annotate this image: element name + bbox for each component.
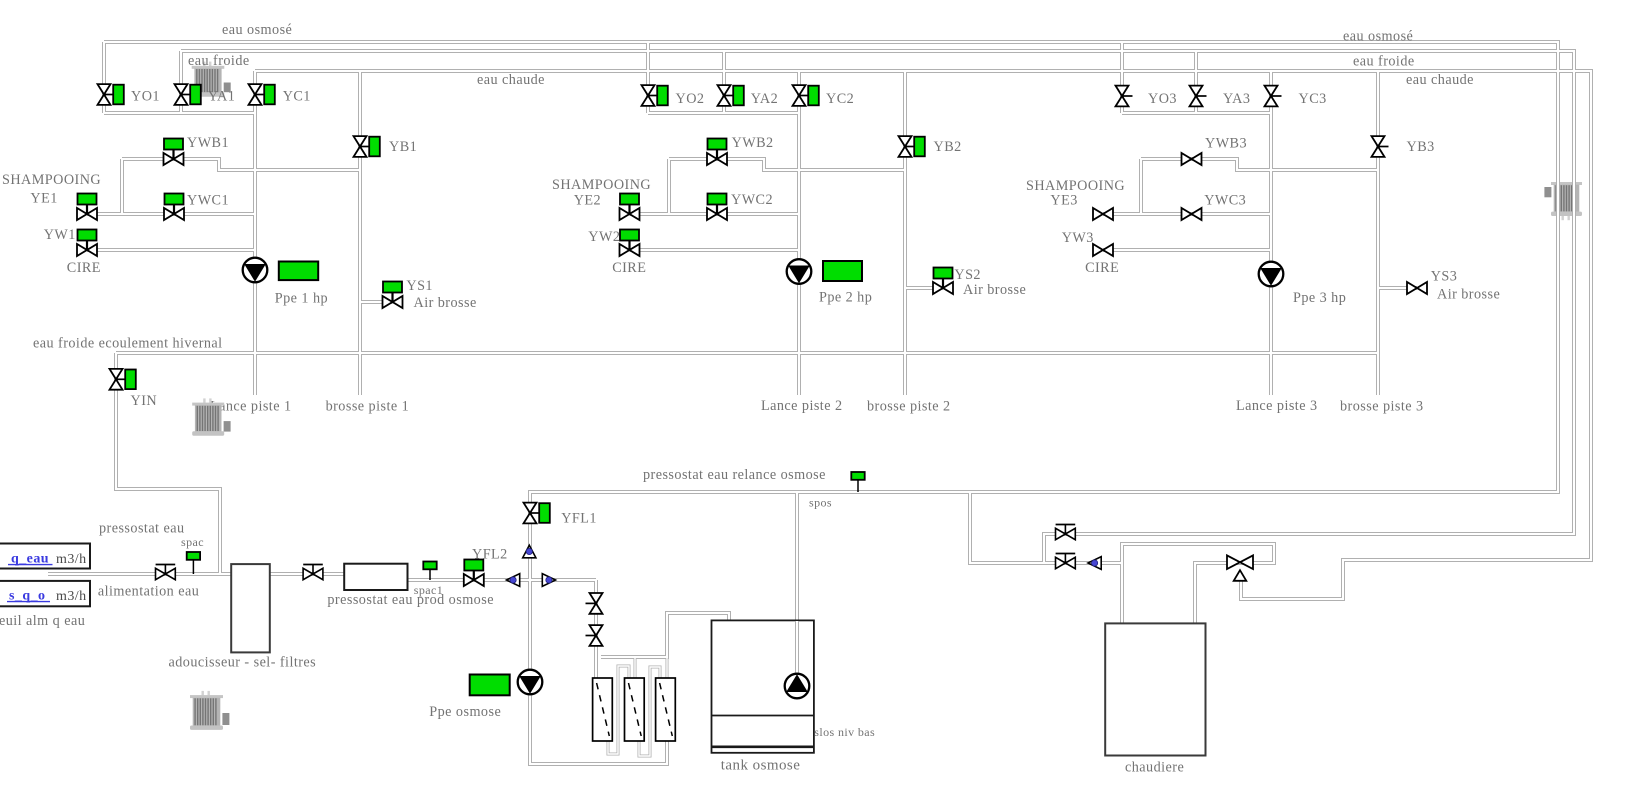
svg-text:CIRE: CIRE bbox=[612, 260, 646, 276]
svg-text:YWC1: YWC1 bbox=[187, 193, 229, 209]
svg-text:YO1: YO1 bbox=[131, 89, 160, 105]
svg-text:brosse piste 1: brosse piste 1 bbox=[326, 399, 410, 415]
svg-text:YB2: YB2 bbox=[934, 139, 962, 155]
svg-text:YFL2: YFL2 bbox=[472, 547, 508, 563]
svg-text:Ppe osmose: Ppe osmose bbox=[429, 704, 501, 720]
svg-text:chaudiere: chaudiere bbox=[1125, 760, 1184, 776]
svg-text:SHAMPOOING: SHAMPOOING bbox=[2, 172, 101, 188]
svg-text:SHAMPOOING: SHAMPOOING bbox=[552, 177, 651, 193]
svg-text:YO3: YO3 bbox=[1148, 91, 1177, 107]
svg-text:YS3: YS3 bbox=[1431, 268, 1458, 284]
svg-text:m3/h: m3/h bbox=[56, 589, 87, 604]
svg-text:YS2: YS2 bbox=[954, 267, 981, 283]
svg-text:eau osmosé: eau osmosé bbox=[1343, 28, 1413, 44]
svg-text:Ppe 1 hp: Ppe 1 hp bbox=[275, 290, 328, 306]
svg-text:slos niv bas: slos niv bas bbox=[814, 725, 875, 739]
svg-text:SHAMPOOING: SHAMPOOING bbox=[1026, 178, 1125, 194]
svg-text:Air brosse: Air brosse bbox=[1437, 286, 1500, 302]
svg-text:Air brosse: Air brosse bbox=[414, 295, 477, 311]
svg-text:alimentation eau: alimentation eau bbox=[98, 583, 199, 599]
svg-text:YB1: YB1 bbox=[389, 139, 417, 155]
svg-text:CIRE: CIRE bbox=[67, 260, 101, 276]
svg-text:eau chaude: eau chaude bbox=[1406, 72, 1474, 88]
svg-text:eau froide ecoulement hivernal: eau froide ecoulement hivernal bbox=[33, 336, 223, 352]
svg-text:YA2: YA2 bbox=[751, 91, 778, 107]
svg-text:YWC2: YWC2 bbox=[731, 192, 773, 208]
svg-text:eau chaude: eau chaude bbox=[477, 72, 545, 88]
svg-text:YFL1: YFL1 bbox=[561, 510, 597, 526]
svg-text:YE2: YE2 bbox=[574, 193, 601, 209]
svg-text:YWB2: YWB2 bbox=[732, 135, 774, 151]
svg-text:eau osmosé: eau osmosé bbox=[222, 22, 292, 38]
svg-text:YE3: YE3 bbox=[1050, 193, 1077, 209]
svg-text:tank osmose: tank osmose bbox=[721, 757, 801, 773]
svg-text:YS1: YS1 bbox=[406, 278, 433, 294]
svg-text:spos: spos bbox=[809, 496, 832, 510]
svg-text:Lance piste 3: Lance piste 3 bbox=[1236, 398, 1317, 414]
svg-text:YA1: YA1 bbox=[208, 89, 235, 105]
svg-text:YC3: YC3 bbox=[1299, 91, 1327, 107]
svg-text:CIRE: CIRE bbox=[1085, 260, 1119, 276]
svg-text:pressostat eau: pressostat eau bbox=[99, 520, 185, 536]
svg-text:YW2: YW2 bbox=[588, 229, 620, 245]
svg-text:eau froide: eau froide bbox=[188, 53, 250, 69]
svg-text:YWC3: YWC3 bbox=[1204, 193, 1246, 209]
svg-text:brosse piste 3: brosse piste 3 bbox=[1340, 399, 1424, 415]
svg-text:spac1: spac1 bbox=[414, 583, 443, 597]
svg-text:YIN: YIN bbox=[131, 393, 158, 409]
svg-text:YW1: YW1 bbox=[44, 227, 76, 243]
svg-text:YC2: YC2 bbox=[826, 91, 854, 107]
svg-text:YB3: YB3 bbox=[1407, 139, 1435, 155]
svg-text:YWB3: YWB3 bbox=[1205, 135, 1247, 151]
svg-text:YW3: YW3 bbox=[1062, 230, 1094, 246]
svg-text:YA3: YA3 bbox=[1223, 91, 1250, 107]
svg-text:YC1: YC1 bbox=[283, 89, 311, 105]
svg-text:m3/h: m3/h bbox=[56, 552, 87, 567]
svg-text:pressostat eau prod osmose: pressostat eau prod osmose bbox=[327, 592, 494, 608]
svg-text:Lance piste 1: Lance piste 1 bbox=[210, 399, 291, 415]
svg-text:pressostat eau relance osmose: pressostat eau relance osmose bbox=[643, 467, 826, 483]
svg-text:Ppe 3 hp: Ppe 3 hp bbox=[1293, 290, 1346, 306]
svg-text:brosse piste 2: brosse piste 2 bbox=[867, 399, 951, 415]
svg-text:YE1: YE1 bbox=[30, 191, 57, 207]
svg-text:Ppe 2 hp: Ppe 2 hp bbox=[819, 290, 872, 306]
svg-text:Lance piste 2: Lance piste 2 bbox=[761, 398, 842, 414]
svg-text:seuil alm q eau: seuil alm q eau bbox=[0, 613, 85, 629]
svg-text:YO2: YO2 bbox=[676, 91, 705, 107]
svg-text:adoucisseur - sel- filtres: adoucisseur - sel- filtres bbox=[169, 654, 317, 670]
svg-text:spac: spac bbox=[181, 535, 204, 549]
svg-text:YWB1: YWB1 bbox=[187, 135, 229, 151]
svg-text:Air brosse: Air brosse bbox=[963, 282, 1026, 298]
svg-text:eau froide: eau froide bbox=[1353, 53, 1415, 69]
